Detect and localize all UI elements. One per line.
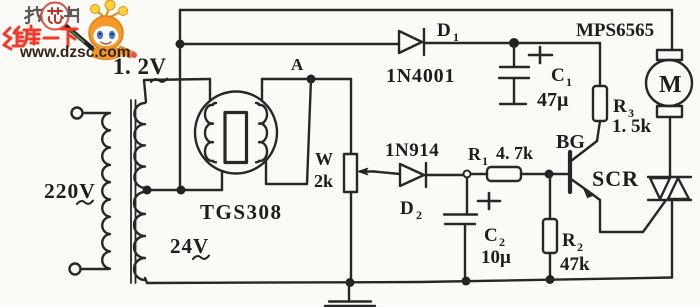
sensor TGS308 body: [195, 92, 277, 174]
svg-text:M: M: [659, 72, 682, 98]
node junction dot base/R1/R2: [545, 170, 554, 179]
resistor R3: [597, 43, 600, 141]
potentiometer W wiper arrow: [360, 170, 374, 172]
svg-text:10μ: 10μ: [481, 247, 511, 268]
transformer secondary winding upper: [134, 103, 145, 188]
node junction dot C2 bottom: [462, 277, 471, 286]
node junction dot rail2/left vertical: [176, 40, 185, 49]
sensor pin bottom-right: [265, 161, 267, 184]
watermark char zhao: [25, 7, 45, 23]
diode D2: [400, 163, 426, 187]
svg-text:MPS6565: MPS6565: [576, 20, 654, 41]
motor M: [671, 10, 673, 50]
svg-text:1: 1: [566, 75, 572, 89]
wire wiper to D2 anode: [374, 172, 400, 175]
resistor R2: [549, 174, 551, 280]
wire emitter to SCR gate: [592, 194, 666, 232]
node junction dot tap/left vertical: [177, 186, 186, 195]
svg-text:D: D: [437, 20, 451, 41]
wire node to R1: [471, 173, 487, 175]
wire top rail: [180, 9, 672, 11]
wire left vertical: [179, 10, 181, 190]
svg-text:SCR: SCR: [592, 166, 639, 191]
capacitor C2: [444, 178, 477, 280]
node junction dot R2 bottom: [546, 275, 555, 284]
svg-text:R: R: [562, 230, 576, 251]
svg-text:TGS308: TGS308: [200, 200, 283, 224]
sensor pin bottom-left: [221, 171, 223, 190]
svg-text:R: R: [613, 96, 627, 117]
svg-text:www.dzsc.com: www.dzsc.com: [19, 44, 131, 61]
svg-text:1: 1: [453, 30, 459, 44]
node junction dot W bottom: [346, 278, 355, 287]
sensor TGS308 inner plate: [225, 113, 247, 163]
wire bottom rail: [145, 278, 672, 284]
svg-text:1N4001: 1N4001: [386, 65, 455, 87]
capacitor C1: [499, 43, 529, 104]
diode D1: [399, 29, 424, 55]
svg-text:1N914: 1N914: [385, 140, 439, 161]
transformer primary winding: [102, 113, 110, 269]
wire D2 cathode to node: [426, 174, 463, 176]
wire D1 cathode to R3 corner: [424, 42, 600, 44]
svg-text:A: A: [291, 55, 304, 74]
watermark magnifier and characters: [4, 0, 137, 61]
transformer core: [131, 100, 136, 283]
wire R3 to BG collector: [571, 141, 597, 161]
node open circle after D2: [464, 171, 471, 178]
watermark magnifier glass: [42, 3, 69, 30]
watermark mascot: [89, 0, 137, 60]
wire R1 to base junction: [521, 173, 549, 175]
svg-text:2: 2: [577, 240, 583, 254]
wire node A horizontal: [262, 78, 351, 80]
watermark char xin: [48, 8, 63, 23]
C1 polarity plus: [529, 47, 552, 63]
transformer primary terminal bottom: [70, 264, 81, 275]
svg-text:220V: 220V: [44, 179, 96, 203]
watermark magnifier handle: [66, 26, 92, 48]
transformer primary terminal top: [72, 108, 83, 119]
wire A down to sensor bottom-right: [267, 79, 311, 184]
svg-text:2k: 2k: [314, 171, 333, 191]
resistor R1: [487, 167, 521, 181]
svg-text:47k: 47k: [560, 254, 590, 275]
transistor BG base bar: [568, 152, 572, 192]
node A dot: [307, 75, 316, 84]
node junction dot C1 top: [509, 38, 519, 48]
sensor pin top-left: [209, 79, 211, 101]
svg-text:C: C: [484, 225, 498, 246]
transformer secondary winding 24V section: [134, 192, 145, 280]
sensor pin top-right: [261, 79, 263, 101]
svg-text:4. 7k: 4. 7k: [496, 143, 533, 163]
watermark red text wei ku yi xia: [4, 26, 77, 49]
svg-text:D: D: [400, 198, 414, 219]
ground: [325, 283, 375, 307]
watermark char pian: [65, 7, 78, 22]
svg-text:W: W: [315, 149, 333, 169]
svg-text:BG: BG: [556, 131, 585, 153]
wire base from R1 junction: [549, 173, 569, 175]
wire rail2 left segment to D1 anode: [180, 43, 399, 45]
svg-text:47μ: 47μ: [537, 89, 569, 111]
svg-text:1. 5k: 1. 5k: [612, 116, 652, 137]
svg-text:C: C: [551, 65, 565, 86]
sensor TGS308 left heater element: [205, 103, 216, 162]
svg-text:2: 2: [416, 208, 422, 222]
svg-text:24V: 24V: [170, 234, 209, 258]
svg-text:R: R: [468, 144, 482, 164]
sensor TGS308 right heater element: [256, 103, 267, 162]
C2 polarity plus: [478, 193, 500, 209]
wire triac to bottom rail: [671, 200, 673, 278]
wire motor to triac: [669, 117, 671, 177]
wire secondary tap: [145, 189, 222, 191]
potentiometer W: [350, 79, 352, 154]
svg-text:1: 1: [482, 154, 488, 168]
triac SCR: [648, 177, 691, 200]
wire 1.2V heater supply: [144, 79, 210, 102]
transistor BG emitter with arrow: [571, 179, 592, 194]
node junction dot tap at coil: [143, 186, 152, 195]
